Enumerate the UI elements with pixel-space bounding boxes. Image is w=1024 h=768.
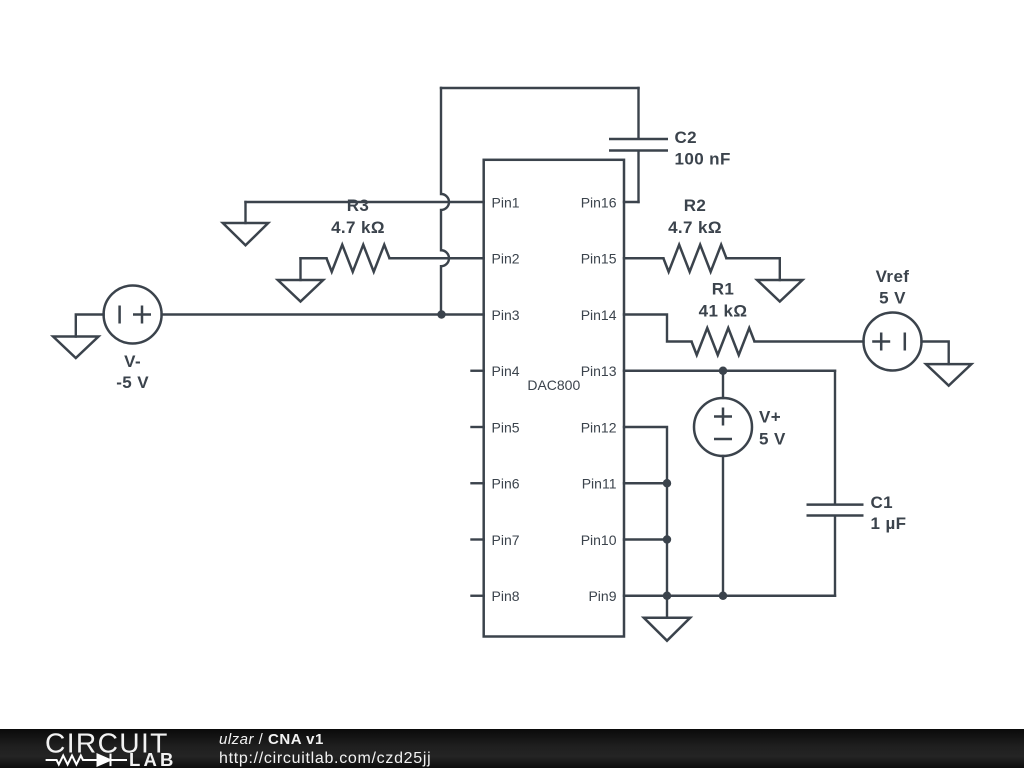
svg-text:C2: C2 [675, 128, 698, 147]
wire Pin12 down to Pin9 net [624, 427, 667, 596]
wire Vref to ground [922, 342, 949, 365]
resistor R3 [301, 196, 484, 272]
svg-text:ulzar / CNA v1: ulzar / CNA v1 [219, 731, 324, 748]
svg-text:1 µF: 1 µF [871, 514, 907, 533]
ground at Vref [926, 364, 971, 386]
capacitor C2 [609, 88, 731, 202]
svg-text:Pin1: Pin1 [492, 194, 520, 210]
ground at R2 [757, 280, 802, 302]
svg-text:Pin10: Pin10 [581, 532, 617, 548]
ground at V- [53, 337, 98, 359]
svg-text:5 V: 5 V [759, 430, 786, 449]
svg-text:41 kΩ: 41 kΩ [699, 302, 748, 321]
capacitor C1 [807, 371, 907, 596]
ground at Pin9 [644, 596, 690, 641]
node junction dot Pin13/V+ [719, 367, 727, 375]
svg-text:Pin11: Pin11 [582, 476, 617, 492]
voltage source Vref [864, 267, 922, 371]
svg-text:R2: R2 [684, 196, 707, 215]
svg-text:4.7 kΩ: 4.7 kΩ [331, 218, 385, 237]
node junction dot Pin11 [663, 479, 671, 487]
svg-text:Pin6: Pin6 [492, 476, 520, 492]
wire left vertical with hops over Pin1 and Pin2 wires [441, 88, 449, 315]
wire V- to Pin3 [162, 313, 484, 315]
voltage source V+ [694, 371, 786, 596]
resistor R2 [624, 196, 780, 280]
wire Pin10 stub [624, 538, 667, 540]
wire Pin1 [246, 201, 484, 203]
wire Pin9 [624, 595, 835, 597]
wire Pin16 stub [624, 201, 639, 203]
ground at Pin1 wire [223, 202, 268, 245]
svg-text:R3: R3 [347, 196, 370, 215]
svg-text:R1: R1 [712, 280, 735, 299]
svg-text:Pin8: Pin8 [492, 588, 520, 604]
svg-text:C1: C1 [871, 493, 894, 512]
resistor R1 [624, 280, 864, 355]
pin 8 stub [472, 595, 484, 597]
svg-text:4.7 kΩ: 4.7 kΩ [668, 218, 722, 237]
svg-text:Pin14: Pin14 [581, 307, 617, 323]
svg-text:Pin9: Pin9 [588, 588, 616, 604]
svg-text:100 nF: 100 nF [675, 150, 731, 169]
svg-text:Pin15: Pin15 [581, 251, 617, 267]
svg-text:Pin3: Pin3 [492, 307, 520, 323]
CircuitLab logo resistor and diode glyph [46, 754, 127, 767]
wire top loop from node A to C2 [441, 87, 639, 89]
node junction dot Pin10 [663, 535, 671, 543]
svg-text:Pin4: Pin4 [492, 363, 520, 379]
svg-text:http://circuitlab.com/czd25jj: http://circuitlab.com/czd25jj [219, 750, 431, 767]
pin 6 stub [472, 482, 484, 484]
svg-text:Pin12: Pin12 [581, 419, 617, 435]
wire Pin13 [624, 370, 835, 372]
ground at R3 left lead [278, 258, 323, 301]
svg-text:V+: V+ [759, 408, 781, 427]
svg-text:LAB: LAB [129, 749, 177, 768]
voltage source V- [104, 286, 162, 392]
pin 4 stub [472, 370, 484, 372]
svg-text:V-: V- [124, 352, 141, 371]
wire Pin11 stub [624, 482, 667, 484]
svg-text:Vref: Vref [876, 267, 910, 286]
svg-text:DAC800: DAC800 [527, 377, 580, 393]
pin 7 stub [472, 538, 484, 540]
wire V- to ground [76, 315, 104, 337]
node junction dot Pin9/V+ [719, 592, 727, 600]
svg-text:Pin16: Pin16 [581, 194, 617, 210]
svg-text:Pin7: Pin7 [492, 532, 520, 548]
IC U1 DAC800 body [484, 160, 624, 637]
node junction dot Pin9/ground [663, 592, 671, 600]
pin 5 stub [472, 426, 484, 428]
svg-text:Pin5: Pin5 [492, 419, 520, 435]
svg-text:Pin13: Pin13 [581, 363, 617, 379]
node A junction dot [437, 310, 445, 318]
svg-text:Pin2: Pin2 [492, 251, 520, 267]
svg-text:5 V: 5 V [879, 289, 906, 308]
svg-text:-5 V: -5 V [116, 373, 149, 392]
